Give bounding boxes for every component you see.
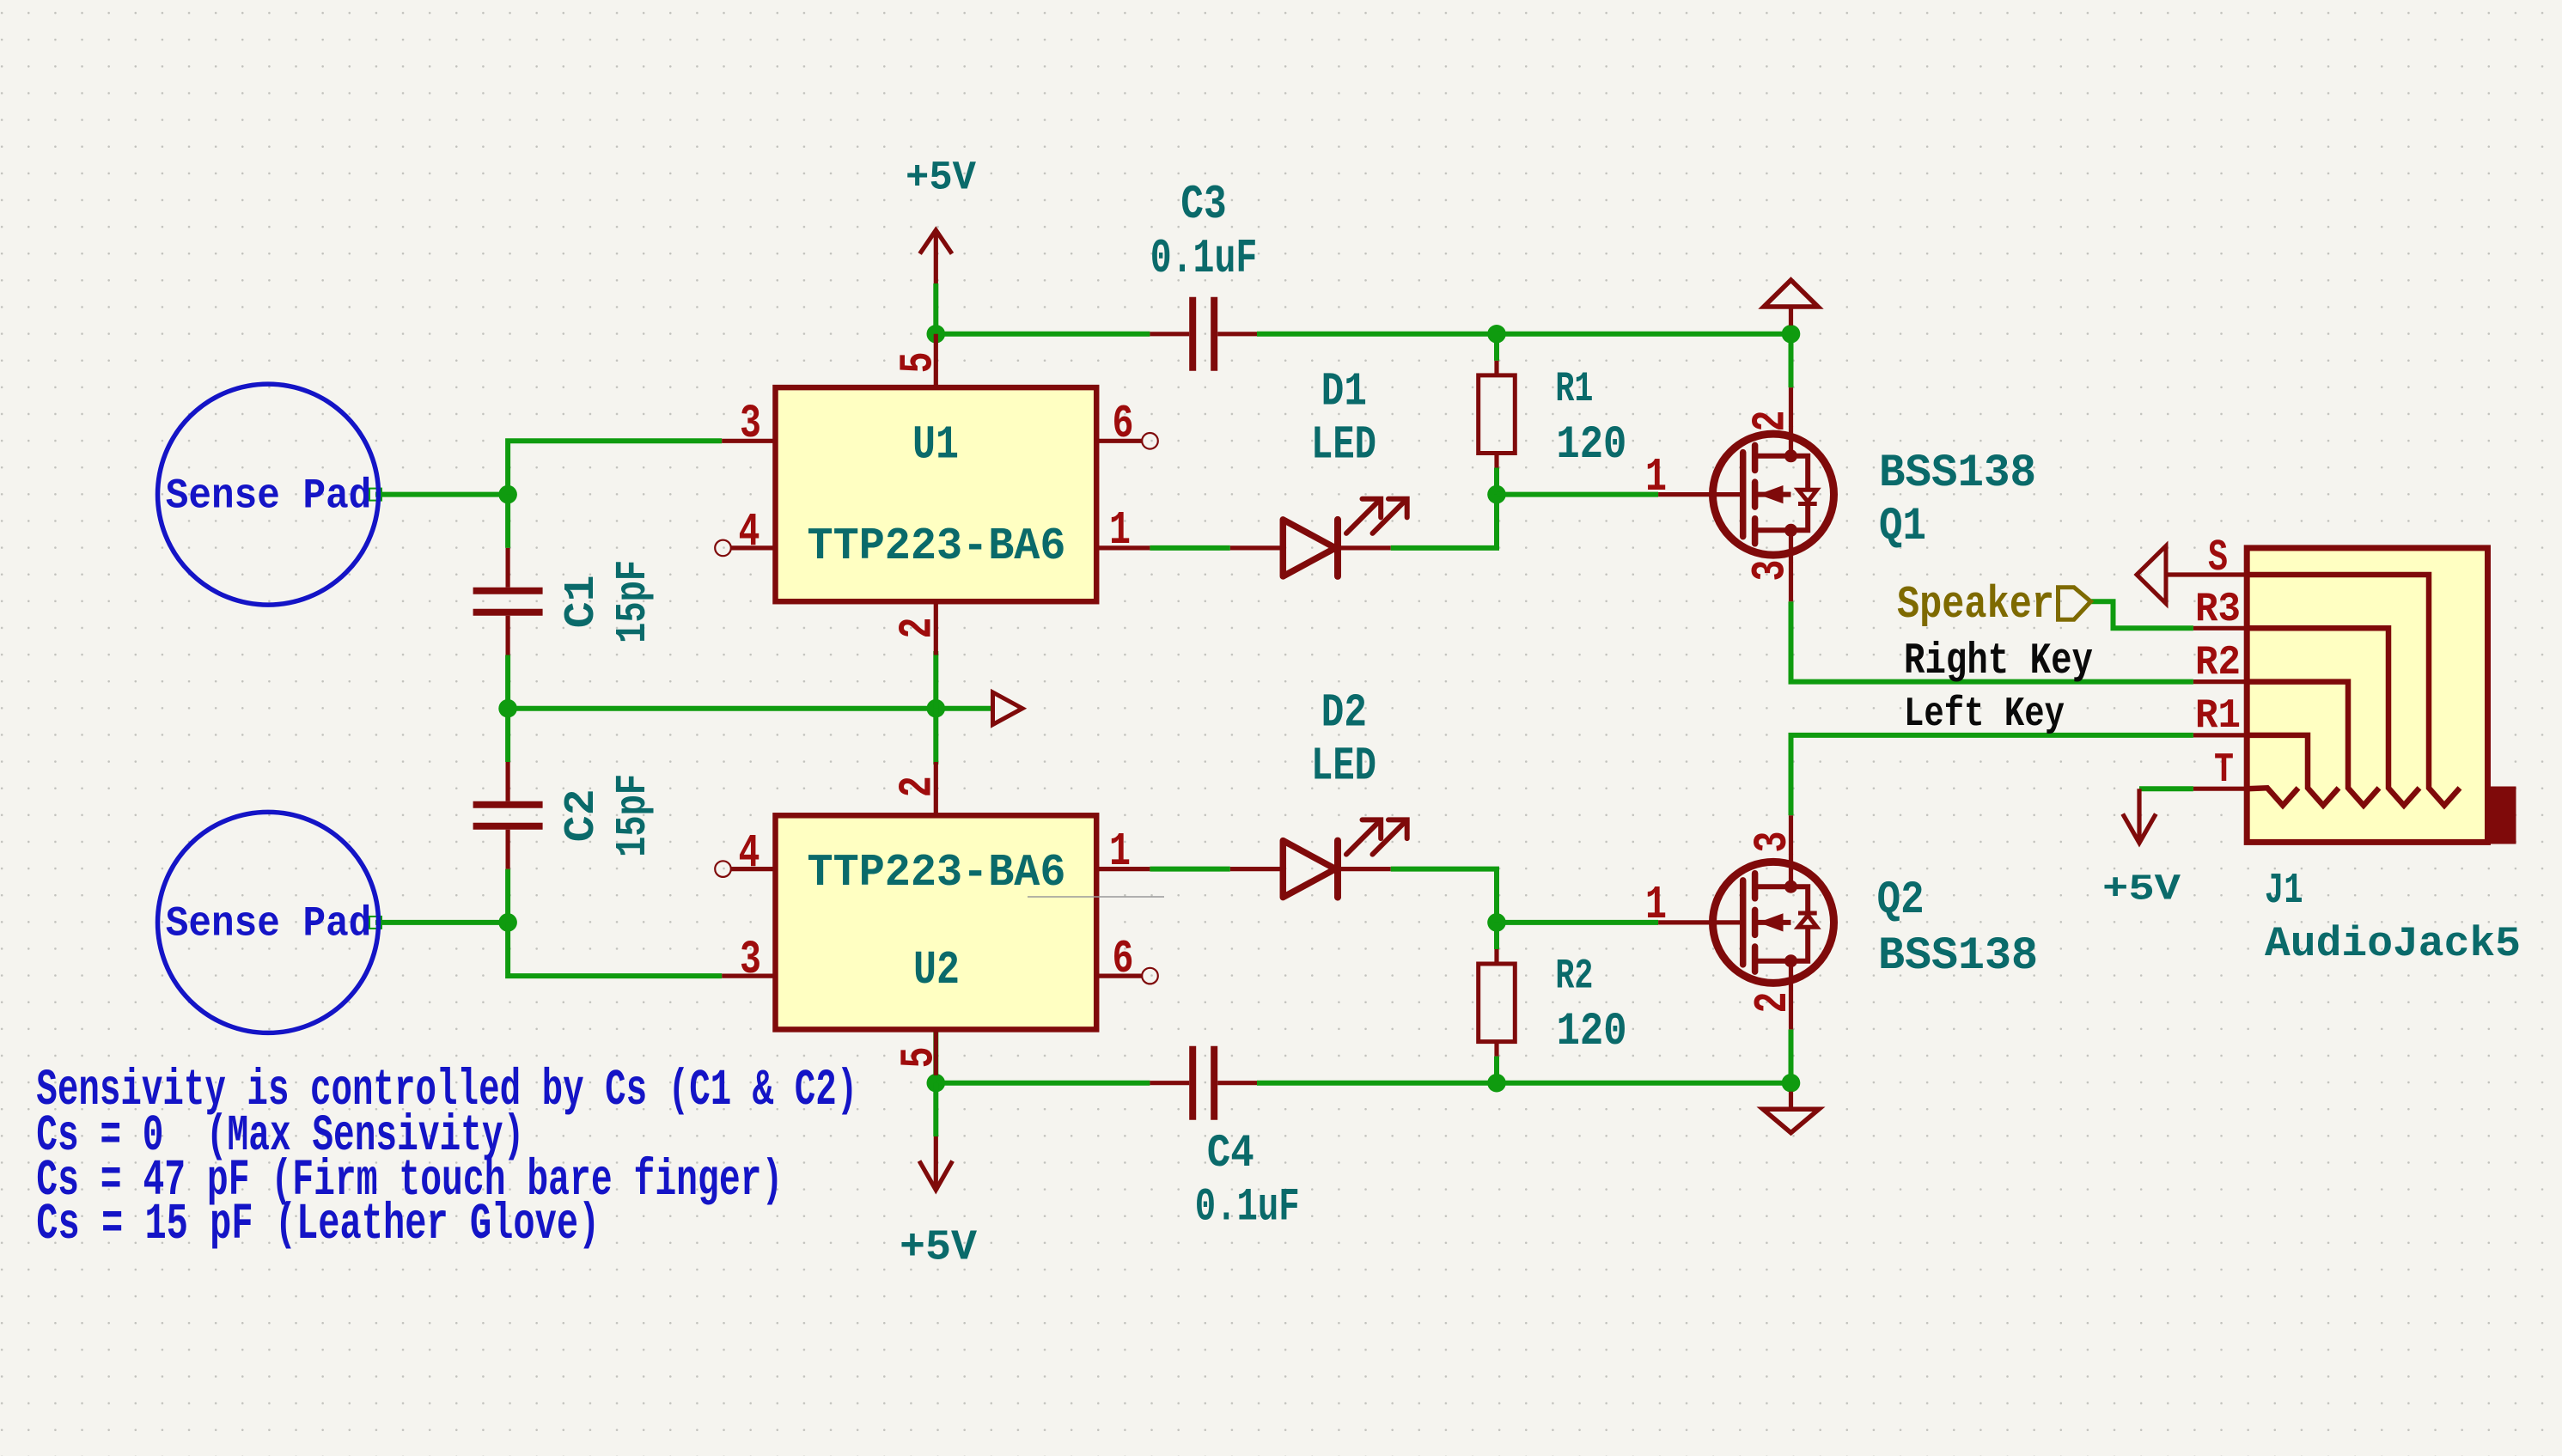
label pin 6 U1 xyxy=(1113,399,1134,451)
note line 4 xyxy=(36,1196,600,1253)
svg-text:3: 3 xyxy=(740,399,761,451)
transistor Q1 drain pin stub xyxy=(1789,387,1793,427)
svg-text:2: 2 xyxy=(893,776,945,797)
label 0.1uF (C4) xyxy=(1195,1182,1300,1234)
label U1 reference xyxy=(912,419,959,472)
wire +5V below U2 xyxy=(933,1083,938,1136)
connector J1 pin R3 xyxy=(2193,626,2247,631)
svg-text:+5V: +5V xyxy=(2102,869,2181,911)
wire R1 junction to GND junction xyxy=(1497,332,1791,337)
flag triangle at jack S pin (left) xyxy=(2137,546,2166,604)
svg-text:2: 2 xyxy=(893,618,945,639)
wire C1 bottom to mid rail xyxy=(505,655,510,709)
label 15pF (C1) xyxy=(608,560,657,643)
capacitor C4 leads xyxy=(1150,1081,1189,1085)
label pin 2 U1 xyxy=(893,618,945,639)
svg-text:C2: C2 xyxy=(557,789,606,842)
svg-text:S: S xyxy=(2208,533,2228,583)
svg-text:Right Key: Right Key xyxy=(1904,637,2093,686)
connector J1 sleeve tab xyxy=(2486,787,2516,844)
svg-text:R1: R1 xyxy=(2195,693,2241,740)
label pin 4 U2 xyxy=(739,828,760,880)
capacitor C3 leads xyxy=(1150,332,1189,336)
transistor Q2 body circle xyxy=(1713,862,1834,983)
node bottom GND junction xyxy=(1782,1074,1801,1093)
svg-text:D2: D2 xyxy=(1321,687,1367,740)
label C2 xyxy=(557,789,606,842)
wire U2 pin 2 to mid rail xyxy=(933,709,938,765)
svg-text:TTP223-BA6: TTP223-BA6 xyxy=(808,847,1066,899)
svg-text:5: 5 xyxy=(893,352,945,374)
svg-text:TTP223-BA6: TTP223-BA6 xyxy=(808,521,1066,572)
connector J1 pin T xyxy=(2193,787,2247,791)
transistor Q1 drain connection xyxy=(1755,454,1791,459)
svg-text:Left Key: Left Key xyxy=(1904,691,2065,738)
ic U2 pin 5 xyxy=(934,1029,938,1075)
svg-text:3: 3 xyxy=(740,935,761,987)
label pin 6 U2 xyxy=(1113,934,1134,986)
label pin 3 Q2 xyxy=(1748,832,1800,853)
label 120 (R1) xyxy=(1556,419,1626,472)
wire U2 pin 5 to C4 rail xyxy=(933,1032,938,1082)
svg-text:C3: C3 xyxy=(1180,177,1226,232)
label pin 3 U1 xyxy=(740,399,761,451)
label D1 xyxy=(1321,366,1367,418)
node sense2 junction xyxy=(498,913,517,932)
label 0.1uF (C3) xyxy=(1150,232,1258,286)
transistor Q1 substrate arrow xyxy=(1758,492,1791,497)
wire unconnected end marker sense pad 1 xyxy=(369,489,381,501)
label R1 xyxy=(1555,365,1593,413)
svg-text:D1: D1 xyxy=(1321,366,1367,418)
node mid-rail center junction xyxy=(927,699,946,718)
wire junction down to C1 xyxy=(505,495,510,548)
diode D2 triangle xyxy=(1283,841,1335,898)
svg-text:Q2: Q2 xyxy=(1877,874,1925,927)
power +5V above U1 xyxy=(934,230,938,283)
node mid-rail left junction xyxy=(498,699,517,718)
label pin 1 U2 xyxy=(1109,826,1131,879)
svg-text:BSS138: BSS138 xyxy=(1879,448,2036,500)
sense pad 2 circle xyxy=(158,812,379,1033)
label J1 value AudioJack5 xyxy=(2265,920,2521,968)
transistor Q2 drain connection xyxy=(1755,959,1791,964)
diode D2 cathode bar xyxy=(1334,841,1341,898)
svg-text:J1: J1 xyxy=(2265,867,2303,916)
wire C2 bottom to sense2 junction xyxy=(505,869,510,923)
label BSS138 (Q1) xyxy=(1879,448,2036,500)
svg-text:5: 5 xyxy=(894,1047,946,1069)
resistor R2 leads xyxy=(1494,949,1498,964)
svg-text:BSS138: BSS138 xyxy=(1878,930,2038,983)
node sense1 junction xyxy=(498,485,517,504)
svg-text:Cs = 15 pF (Leather Glove): Cs = 15 pF (Leather Glove) xyxy=(36,1196,600,1253)
label D2 xyxy=(1321,687,1367,740)
label pin 5 U2 xyxy=(894,1047,946,1069)
transistor Q2 drain pin stub xyxy=(1789,990,1793,1030)
transistor Q2 gate pin xyxy=(1658,920,1743,924)
svg-text:Q1: Q1 xyxy=(1879,501,1926,553)
svg-text:1: 1 xyxy=(1645,452,1667,504)
wire R1 top lead xyxy=(1494,334,1499,361)
label U2 value TTP223-BA6 xyxy=(808,847,1066,899)
capacitor C2 plates xyxy=(473,801,543,808)
label C4 xyxy=(1207,1128,1254,1180)
note line 3 xyxy=(36,1152,783,1209)
svg-text:15pF: 15pF xyxy=(608,560,657,643)
svg-text:2: 2 xyxy=(1748,992,1800,1014)
wire C2 top lead xyxy=(505,709,510,762)
flag triangle mid rail (right) xyxy=(993,692,1023,725)
wire R1 bottom lead xyxy=(1494,468,1499,495)
label pin 2 U2 xyxy=(893,776,945,797)
capacitor C1 plates xyxy=(473,588,543,594)
capacitor C1 leads xyxy=(505,548,509,588)
net label Left Key xyxy=(1904,691,2065,738)
svg-text:+5V: +5V xyxy=(906,156,977,202)
connector J1 contact R2 xyxy=(2247,682,2379,806)
wire junction to U2 pin 3 xyxy=(508,923,722,976)
wire C4 rail to R2 junction xyxy=(1257,1081,1497,1086)
wire jack S pin line xyxy=(2166,572,2247,576)
transistor Q1 source pin stub xyxy=(1789,563,1793,602)
sense pad 1 label xyxy=(166,472,371,520)
svg-text:0.1uF: 0.1uF xyxy=(1195,1182,1300,1234)
wire mid rail xyxy=(508,706,992,711)
label LED (D2) xyxy=(1311,741,1376,794)
label pin R2 J1 xyxy=(2195,640,2241,686)
sense pad 1 circle xyxy=(158,384,379,605)
svg-text:1: 1 xyxy=(1645,880,1667,932)
diode D1 triangle xyxy=(1283,520,1335,576)
transistor Q1 gate pin xyxy=(1658,492,1743,497)
label pin 3 Q1 xyxy=(1746,560,1798,582)
transistor Q2 source pin stub xyxy=(1789,815,1793,855)
connector J1 pin R2 xyxy=(2193,679,2247,684)
transistor Q1 source connection xyxy=(1755,527,1791,533)
node U2 pin5 junction xyxy=(927,1074,946,1093)
svg-text:T: T xyxy=(2214,747,2234,794)
connector J1 contact T xyxy=(2247,788,2298,805)
wire U2 pin1 to D2 xyxy=(1150,867,1229,872)
label C1 xyxy=(557,575,606,628)
wire R2 bottom lead xyxy=(1494,1057,1499,1083)
svg-text:+5V: +5V xyxy=(900,1224,978,1273)
ic U1 pin 6 (inverted) xyxy=(1096,439,1142,443)
svg-text:2: 2 xyxy=(1746,411,1798,432)
wire junction to U1 pin 3 xyxy=(508,441,722,494)
diode D2 leads xyxy=(1230,867,1284,871)
wire C4 rail left xyxy=(936,1081,1150,1086)
note line 1 xyxy=(36,1062,857,1119)
wire R2 junction to bottom GND junction xyxy=(1497,1081,1791,1086)
wire Left Key from Q2 source xyxy=(1791,735,2193,815)
label C3 xyxy=(1180,177,1226,232)
transistor Q1 channel segments xyxy=(1752,445,1759,470)
label BSS138 (Q2) xyxy=(1878,930,2038,983)
svg-text:4: 4 xyxy=(739,828,760,880)
svg-text:AudioJack5: AudioJack5 xyxy=(2265,920,2521,968)
ic U2 pin 4 (inverted) xyxy=(715,861,731,877)
label pin 1 Q1 xyxy=(1645,452,1667,504)
svg-text:LED: LED xyxy=(1311,420,1376,472)
ic U1 pin 3 xyxy=(722,439,775,443)
node D2 junction xyxy=(1487,913,1506,932)
wire sense pad 1 to junction xyxy=(375,492,508,497)
label R2 xyxy=(1555,952,1593,1000)
svg-text:15pF: 15pF xyxy=(608,774,657,857)
svg-text:1: 1 xyxy=(1109,826,1131,879)
power +5V below U2 xyxy=(934,1136,938,1190)
svg-text:Speaker: Speaker xyxy=(1897,579,2054,631)
node R1 bottom junction xyxy=(1487,485,1506,504)
transistor Q2 body diode xyxy=(1791,927,1809,961)
connector J1 contact S xyxy=(2247,575,2460,806)
connector J1 contact R1 xyxy=(2247,735,2339,806)
label 15pF (C2) xyxy=(608,774,657,857)
ic U2 pin 1 xyxy=(1096,867,1150,871)
diode D2 emission arrows xyxy=(1346,823,1378,855)
svg-text:120: 120 xyxy=(1557,1006,1627,1058)
ic U2 pin 2 xyxy=(934,762,938,815)
label pin R1 J1 xyxy=(2195,693,2241,740)
svg-text:Sense Pad: Sense Pad xyxy=(166,472,371,520)
svg-text:6: 6 xyxy=(1113,934,1134,986)
wire unconnected end marker sense pad 2 xyxy=(369,917,381,929)
capacitor C3 plates xyxy=(1189,297,1196,371)
svg-text:1: 1 xyxy=(1109,505,1131,557)
node R2 bottom junction xyxy=(1487,1074,1506,1093)
svg-text:R1: R1 xyxy=(1555,365,1593,413)
svg-text:R2: R2 xyxy=(2195,640,2241,686)
stray underline artifact below U2 value xyxy=(1028,896,1164,898)
label pin 1 Q2 xyxy=(1645,880,1667,932)
wire jack T to +5V xyxy=(2139,786,2193,791)
power +5V at jack T pin xyxy=(2137,789,2141,843)
power GND triangle below Q2 xyxy=(1789,1092,1793,1110)
global label Speaker xyxy=(1897,579,2054,631)
label pin 4 U1 xyxy=(739,507,760,559)
label pin 3 U2 xyxy=(740,935,761,987)
svg-text:C1: C1 xyxy=(557,575,606,628)
label J1 reference xyxy=(2265,867,2303,916)
svg-text:Sense Pad: Sense Pad xyxy=(166,900,371,948)
capacitor C2 leads xyxy=(505,762,509,801)
wire +5V to U1 pin 5 xyxy=(933,283,938,334)
ic U2 pin 3 xyxy=(722,973,775,978)
ic U1 pin 5 xyxy=(934,334,938,387)
transistor Q1 gate bar xyxy=(1740,453,1747,537)
wire Q1 drain to top rail xyxy=(1789,334,1794,387)
wire R2 top lead xyxy=(1494,923,1499,949)
label Q2 xyxy=(1877,874,1925,927)
label pin 2 Q2 xyxy=(1748,992,1800,1014)
wire D2 cathode to junction xyxy=(1391,869,1497,923)
wire Q2 drain to C4 rail xyxy=(1789,1029,1794,1082)
svg-text:6: 6 xyxy=(1113,399,1134,451)
wire top rail to C3 xyxy=(936,332,1150,337)
svg-text:3: 3 xyxy=(1746,560,1798,582)
wire sense pad 2 to junction xyxy=(375,920,508,925)
diode D1 leads xyxy=(1230,545,1284,550)
label U2 reference xyxy=(913,944,960,997)
label U1 value TTP223-BA6 xyxy=(808,521,1066,572)
ic U1 pin 4 (inverted) xyxy=(715,540,731,557)
net label Right Key xyxy=(1904,637,2093,686)
wire junction to Q1 gate xyxy=(1497,492,1658,497)
svg-text:120: 120 xyxy=(1556,419,1626,472)
svg-text:R2: R2 xyxy=(1555,952,1593,1000)
label pin 2 Q1 xyxy=(1746,411,1798,432)
transistor Q2 substrate arrow xyxy=(1758,920,1791,925)
wire D1 cathode to junction xyxy=(1391,495,1497,548)
label 120 (R2) xyxy=(1557,1006,1627,1058)
svg-text:0.1uF: 0.1uF xyxy=(1150,232,1258,286)
diode D1 emission arrows xyxy=(1346,502,1378,533)
wire speaker label to jack R3 xyxy=(2091,601,2193,628)
transistor Q1 body circle xyxy=(1713,434,1834,555)
resistor R1 body xyxy=(1479,375,1516,454)
node top GND junction xyxy=(1782,325,1801,344)
wire U1 pin1 to D1 xyxy=(1150,545,1229,551)
svg-text:LED: LED xyxy=(1311,741,1376,794)
connector J1 body xyxy=(2247,548,2487,843)
transistor Q2 source connection xyxy=(1755,884,1791,889)
resistor R1 leads xyxy=(1494,361,1498,375)
ic U1 pin 1 xyxy=(1096,545,1150,550)
label Q1 xyxy=(1879,501,1926,553)
label pin T J1 xyxy=(2214,747,2234,794)
svg-text:U1: U1 xyxy=(912,419,959,472)
diode D1 cathode bar xyxy=(1334,520,1341,576)
resistor R2 body xyxy=(1479,964,1516,1042)
note line 2 xyxy=(36,1107,524,1165)
ic U2 body xyxy=(776,815,1097,1029)
svg-text:4: 4 xyxy=(739,507,760,559)
transistor Q1 body diode xyxy=(1791,456,1809,490)
label LED (D1) xyxy=(1311,420,1376,472)
wire junction to Q2 gate xyxy=(1497,920,1658,925)
label pin 5 U1 xyxy=(893,352,945,374)
sense pad 2 label xyxy=(166,900,371,948)
svg-text:3: 3 xyxy=(1748,832,1800,853)
connector J1 pin R1 xyxy=(2193,733,2247,737)
label pin S J1 xyxy=(2208,533,2228,583)
ic U2 pin 6 (inverted) xyxy=(1096,973,1142,978)
svg-text:R3: R3 xyxy=(2195,587,2241,633)
wire U1 pin 2 to mid rail xyxy=(933,651,938,709)
node U1 pin5 junction xyxy=(927,325,946,344)
transistor Q2 channel segments xyxy=(1752,874,1759,899)
transistor Q2 gate bar xyxy=(1740,880,1747,965)
svg-text:U2: U2 xyxy=(913,944,960,997)
wire Q1 source down to Right Key xyxy=(1791,601,2193,681)
wire C3 to R1 top junction xyxy=(1257,332,1497,337)
ic U1 pin 2 xyxy=(934,601,938,655)
ic U1 body xyxy=(776,387,1097,601)
power GND triangle above Q1 xyxy=(1789,307,1793,326)
label pin 1 U1 xyxy=(1109,505,1131,557)
connector J1 contact R3 xyxy=(2247,628,2419,805)
label pin R3 J1 xyxy=(2195,587,2241,633)
svg-text:C4: C4 xyxy=(1207,1128,1254,1180)
capacitor C4 plates xyxy=(1189,1046,1196,1120)
node R1 top junction xyxy=(1487,325,1506,344)
